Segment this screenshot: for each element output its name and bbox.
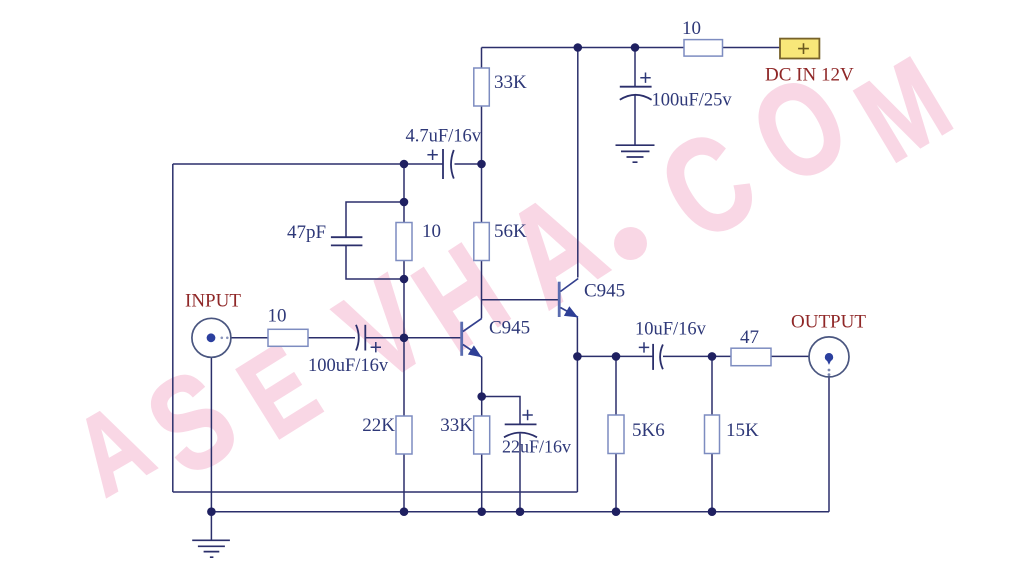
svg-text:INPUT: INPUT <box>185 291 241 312</box>
junction node rail-filter cap <box>631 43 640 52</box>
svg-text:OUTPUT: OUTPUT <box>791 312 866 333</box>
wire feedback bottom segment <box>173 491 578 493</box>
wire 47pF branch top <box>346 202 404 237</box>
wire 100uF/25v cap to ground <box>634 95 636 145</box>
capacitor 22uF/16v emitter bypass <box>505 423 537 425</box>
wire 15K column <box>711 356 713 511</box>
wire 5K6 column <box>615 356 617 511</box>
junction node 15K top <box>708 352 717 361</box>
transistor Q2 C945 <box>559 279 625 318</box>
INPUT connector <box>185 291 241 358</box>
svg-text:10: 10 <box>422 221 441 242</box>
svg-text:100uF/16v: 100uF/16v <box>308 356 389 376</box>
junction node ground 5K6 <box>612 507 621 516</box>
svg-text:100uF/25v: 100uF/25v <box>652 91 733 111</box>
wire 4.7uF cap to x481 column <box>455 163 482 165</box>
junction node RC bottom <box>400 275 409 284</box>
wire Q2 emitter column down to feedback <box>576 356 578 492</box>
junction node rail-Q2 collector <box>574 43 583 52</box>
junction node 33K bottom <box>477 160 486 169</box>
svg-text:33K: 33K <box>440 415 473 436</box>
svg-text:10: 10 <box>682 18 701 39</box>
svg-text:10: 10 <box>268 306 287 327</box>
wire 47pF branch bottom <box>346 246 404 279</box>
junction node feedback/cap junction <box>400 160 409 169</box>
ground (supply filter) <box>616 145 655 162</box>
wire left column x481: rail to Q1 collector (through 33K and 56K) <box>481 48 483 319</box>
transistor Q1 C945 <box>462 318 530 358</box>
resistor 10 input series <box>268 329 308 346</box>
junction node ground rail left <box>207 507 216 516</box>
resistor 15K <box>705 415 720 454</box>
wire 100uF/25v branch from rail <box>634 48 636 87</box>
wire Q2 emitter vertical <box>576 318 578 357</box>
wire Q2 emitter node to 10uF cap <box>577 355 652 357</box>
junction node RC top <box>400 198 409 207</box>
wire 10uF cap to output network <box>663 355 809 357</box>
svg-text:22uF/16v: 22uF/16v <box>502 437 571 457</box>
resistor 10 supply filter <box>684 40 723 57</box>
svg-text:C945: C945 <box>584 281 625 302</box>
wire input connector stem <box>210 357 212 511</box>
wire input connector to coupling cap <box>231 337 355 339</box>
capacitor 10uF/16v output coupling <box>652 344 654 370</box>
wire x404 column (bias chain) <box>403 164 405 512</box>
resistor 33K emitter <box>474 416 490 454</box>
svg-text:4.7uF/16v: 4.7uF/16v <box>406 127 482 147</box>
resistor 33K collector load <box>474 68 490 106</box>
capacitor 47pF <box>331 237 363 245</box>
svg-text:47: 47 <box>740 327 759 348</box>
wire 22uF cap to ground rail <box>519 434 521 512</box>
capacitor 100uF/16v input coupling <box>356 325 359 351</box>
resistor 22K <box>396 416 412 454</box>
wire feedback top segment to 4.7uF cap <box>173 163 443 165</box>
resistor 5K6 <box>608 415 624 454</box>
junction node Q1 emitter network <box>477 392 486 401</box>
wire 22uF branch horizontal <box>482 397 520 425</box>
svg-text:56K: 56K <box>494 221 527 242</box>
svg-text:DC IN 12V: DC IN 12V <box>765 65 854 86</box>
svg-text:15K: 15K <box>726 420 759 441</box>
resistor 10 (parallel with 47pF) <box>396 223 412 261</box>
junction node ground 22K <box>400 507 409 516</box>
svg-text:C945: C945 <box>489 318 530 339</box>
wire ground rail bottom <box>211 511 829 513</box>
wire top supply rail <box>482 47 781 49</box>
junction node Q2 emitter <box>573 352 582 361</box>
wire coupling cap to base node <box>365 337 404 339</box>
capacitor 100uF/25v supply filter <box>620 86 652 88</box>
DC IN 12V plug <box>765 39 854 86</box>
resistor 56K <box>474 223 490 261</box>
resistor 47 output series <box>731 348 771 366</box>
wire output connector stem <box>828 377 830 512</box>
wire left feedback rail vertical <box>172 164 174 492</box>
wire Q2 base horizontal <box>482 299 559 301</box>
svg-text:10uF/16v: 10uF/16v <box>635 320 707 340</box>
wire Q1 base <box>404 337 460 339</box>
wire Q2 collector column <box>577 48 579 278</box>
ground (input / main) <box>192 512 230 558</box>
junction node Q1 base <box>400 334 409 343</box>
junction node ground 33K <box>477 507 486 516</box>
wire Q1 emitter column <box>481 357 483 512</box>
svg-text:22K: 22K <box>362 415 395 436</box>
junction node ground 22uF <box>516 507 525 516</box>
OUTPUT connector <box>791 312 866 377</box>
watermark ASEVHA.COM <box>54 32 971 519</box>
junction node ground 15K <box>708 507 717 516</box>
svg-text:47pF: 47pF <box>287 222 326 243</box>
junction node 5K6 top <box>612 352 621 361</box>
capacitor 4.7uF/16v coupling <box>442 149 444 179</box>
svg-text:33K: 33K <box>494 72 527 93</box>
svg-text:5K6: 5K6 <box>632 420 665 441</box>
